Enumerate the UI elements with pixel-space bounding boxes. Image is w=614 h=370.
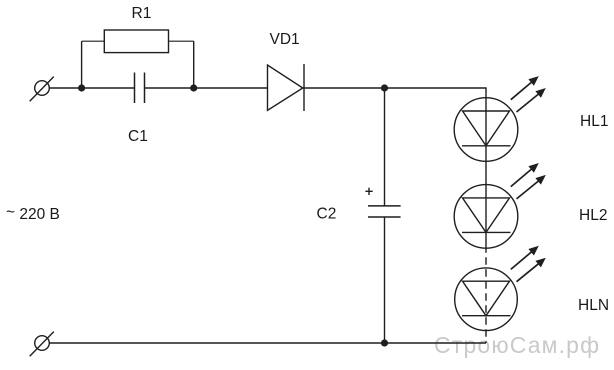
bottom rail wire: [49, 342, 486, 344]
svg-text:HLN: HLN: [578, 297, 609, 314]
wire node B to diode: [194, 87, 268, 89]
C2 polarity plus sign: [365, 188, 372, 195]
wire R1 branch left horizontal: [82, 40, 105, 42]
capacitor C2: [368, 206, 401, 217]
node D junction dot: [381, 339, 388, 346]
HL1 arrows: [511, 76, 546, 112]
wire R1 branch left riser: [81, 41, 83, 88]
capacitor C1: [135, 73, 145, 104]
HLN arrows: [511, 246, 546, 282]
svg-text:R1: R1: [132, 5, 152, 22]
wire LED column dashed segment: [485, 253, 487, 343]
resistor R1: [104, 30, 168, 53]
wire C1 to node B: [145, 87, 194, 89]
wire node C down to C2: [384, 88, 386, 206]
wire terminal to node A: [49, 87, 81, 89]
node C junction dot: [381, 84, 388, 91]
terminal X2 (bottom input): [30, 332, 54, 357]
wire LED column solid segment: [485, 98, 487, 253]
diode VD1: [268, 64, 305, 111]
svg-text:HL2: HL2: [579, 207, 607, 224]
terminal X1 (top input): [30, 77, 54, 102]
node A junction dot: [78, 84, 85, 91]
wire C2 to bottom rail: [384, 217, 386, 343]
svg-text:VD1: VD1: [270, 31, 300, 48]
wire node A to C1: [82, 87, 135, 89]
svg-text:~ 220 В: ~ 220 В: [6, 204, 60, 223]
svg-text:C1: C1: [128, 128, 148, 145]
svg-text:HL1: HL1: [580, 113, 608, 130]
wire node C to LED column top: [385, 88, 487, 98]
wire R1 branch right horizontal: [169, 40, 194, 42]
LED HL2: [454, 185, 518, 249]
svg-text:C2: C2: [317, 206, 337, 223]
LED HL1: [454, 98, 518, 162]
wire R1 branch right riser: [193, 41, 195, 88]
LED HLN: [455, 268, 518, 331]
svg-text:СтроюСам.рф: СтроюСам.рф: [434, 332, 599, 358]
node B junction dot: [190, 84, 197, 91]
wire diode to node C: [303, 87, 385, 89]
HL2 arrows: [511, 163, 546, 199]
